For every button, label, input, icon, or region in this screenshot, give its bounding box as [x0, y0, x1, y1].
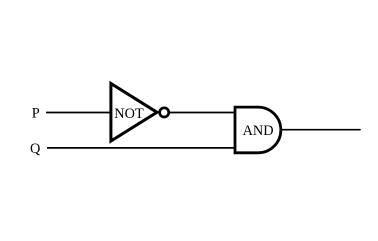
svg-text:NOT: NOT [114, 106, 144, 122]
and-gate U2 body [235, 107, 281, 153]
not-gate U1 triangle [111, 84, 157, 142]
wire AND output [281, 129, 360, 131]
svg-text:AND: AND [243, 123, 274, 139]
wire NOT output to AND input [170, 112, 235, 114]
svg-text:P: P [32, 105, 40, 121]
wire P input [46, 112, 111, 114]
not-gate U1 inversion bubble [160, 108, 169, 117]
wire Q input [47, 147, 235, 149]
svg-text:Q: Q [30, 141, 41, 157]
